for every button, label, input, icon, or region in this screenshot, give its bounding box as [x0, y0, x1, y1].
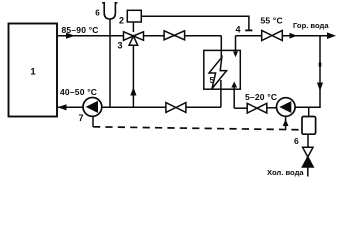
svg-text:85–90 °C: 85–90 °C — [62, 25, 99, 35]
pump (secondary) — [277, 98, 296, 117]
flow arrow supply — [66, 33, 75, 39]
wire supply corner into HX — [220, 36, 222, 58]
svg-text:1: 1 — [30, 67, 36, 78]
check valve — [303, 147, 313, 157]
flow arrow down circulation — [317, 83, 323, 92]
arrow into HX (bottom-right) — [231, 82, 237, 88]
actuator 2 — [127, 10, 141, 22]
flow arrow DHW — [290, 33, 298, 39]
wire cold water inlet — [307, 167, 309, 177]
svg-text:6: 6 — [294, 136, 299, 146]
valve (supply) — [164, 31, 185, 40]
water meter 6 — [302, 117, 316, 135]
valve (5-20C) — [247, 103, 267, 113]
heat exchanger 5 — [204, 50, 241, 89]
wire pump suction stub — [285, 116, 287, 130]
expansion tank 6 — [102, 3, 117, 19]
wire supply line 85-90C — [57, 35, 221, 37]
svg-text:2: 2 — [119, 16, 124, 26]
svg-text:3: 3 — [118, 41, 123, 51]
boiler 1 — [9, 24, 58, 117]
sensor 4 — [245, 29, 252, 31]
wire circulation drop — [295, 36, 320, 108]
svg-text:Хол. вода: Хол. вода — [267, 168, 304, 177]
terminal arrow DHW — [327, 32, 336, 39]
wire return to HX — [186, 106, 221, 108]
svg-text:5: 5 — [210, 75, 215, 85]
wire top DHW line — [236, 35, 262, 37]
svg-text:55 °C: 55 °C — [261, 15, 283, 25]
wire HX top-right pipe — [235, 36, 237, 53]
wire pump 7 drop — [92, 116, 94, 127]
wire meter stub — [308, 107, 310, 116]
arrow into HX (top-right) — [233, 52, 238, 58]
wire return line — [58, 106, 166, 108]
flow arrow into boiler — [58, 104, 67, 110]
arrow up into pump — [283, 119, 289, 126]
control dashed line — [93, 127, 303, 130]
pump 7 — [83, 98, 102, 117]
wire DHW outlet line — [282, 35, 331, 37]
wire meter to check valve — [307, 134, 309, 147]
wire actuator stem — [132, 22, 134, 32]
wire pump to corner — [295, 106, 320, 108]
wire HX bottom-right pipe — [233, 86, 235, 108]
control line 2 to 4 — [141, 16, 249, 29]
flow arrow up into valve 3 — [130, 87, 136, 96]
svg-text:40–50 °C: 40–50 °C — [60, 87, 97, 97]
svg-text:7: 7 — [79, 113, 84, 123]
HX bolt — [209, 57, 227, 88]
three-way valve 3 — [124, 32, 144, 46]
wire HX bottom-left pipe — [220, 80, 222, 107]
valve (return) — [166, 103, 186, 113]
svg-text:6: 6 — [95, 9, 100, 18]
wire 3-way valve down pipe — [132, 45, 134, 107]
tick on circulation line — [319, 63, 322, 67]
wire valve to pump — [267, 107, 277, 109]
svg-text:Гор. вода: Гор. вода — [293, 21, 329, 30]
wire tank stem / bypass — [109, 19, 111, 107]
wire cold line HX to valve — [234, 107, 247, 109]
valve (55C) — [262, 30, 283, 40]
svg-text:4: 4 — [236, 25, 241, 35]
svg-text:5–20 °C: 5–20 °C — [245, 92, 277, 102]
